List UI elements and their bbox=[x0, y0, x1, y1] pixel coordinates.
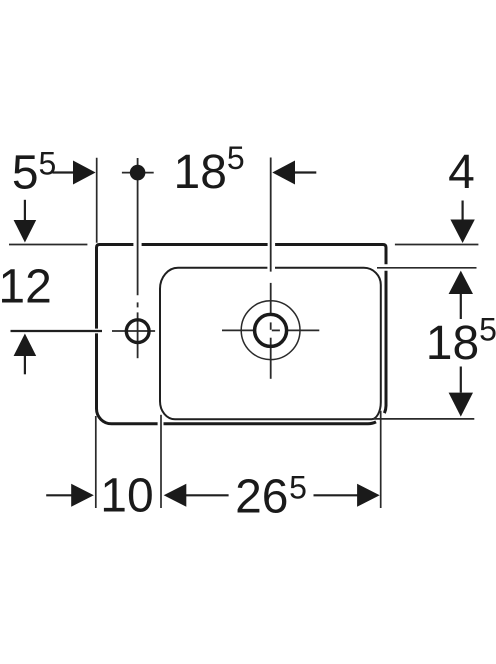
drain horizontal centerline bbox=[222, 329, 319, 331]
drain vertical centerline bbox=[270, 158, 272, 379]
arrow up 12 bbox=[14, 334, 37, 357]
arrow up 18.5 right bbox=[449, 271, 473, 294]
label 18.5 right bbox=[426, 312, 496, 371]
dimension line 26.5 tail right bbox=[314, 494, 359, 496]
extension line basin left bottom bbox=[95, 416, 97, 508]
dimension stem 12 lower bbox=[24, 355, 26, 374]
arrow left 26.5 bbox=[164, 484, 187, 507]
tap hole vertical centerline bbox=[137, 158, 139, 358]
dimension stem 18.5 right upper bbox=[460, 293, 462, 319]
arrow right 10 bbox=[71, 484, 94, 507]
svg-text:12: 12 bbox=[0, 260, 52, 313]
dimension line 18.5 top tail bbox=[294, 171, 316, 173]
svg-text:10: 10 bbox=[100, 470, 153, 523]
label 26.5 bbox=[235, 470, 307, 524]
reference dot crosshair bbox=[122, 172, 154, 174]
svg-text:18: 18 bbox=[426, 317, 479, 370]
dimension stem 12 upper bbox=[24, 200, 26, 221]
svg-text:18: 18 bbox=[174, 146, 227, 199]
dimension line 5.5 top bbox=[52, 171, 73, 173]
arrow down 18.5 right bbox=[449, 393, 473, 417]
extension line left edge vertical top bbox=[96, 158, 98, 243]
label 18.5 top bbox=[174, 140, 245, 199]
dimension line 26.5 tail left bbox=[186, 494, 229, 496]
extension line bowl bottom right bbox=[372, 418, 474, 420]
extension line basin top right bbox=[395, 244, 479, 246]
dimension stem 18.5 right lower bbox=[460, 367, 462, 393]
tap hole horizontal centerline bbox=[112, 330, 155, 332]
extension line bowl right bottom bbox=[380, 411, 382, 508]
dimension line tap center left bbox=[11, 330, 103, 332]
extension line bowl top right bbox=[377, 267, 477, 269]
basin outer outline bbox=[97, 245, 387, 424]
dimension stem 4 bbox=[462, 201, 464, 221]
drain inner circle bbox=[255, 314, 287, 346]
label 5.5 bbox=[12, 145, 56, 199]
arrow down 12 bbox=[14, 220, 37, 243]
arrow left 18.5 top bbox=[272, 161, 295, 185]
svg-text:4: 4 bbox=[448, 146, 475, 199]
extension line bowl left bottom bbox=[160, 415, 162, 508]
extension line basin top left bbox=[9, 244, 87, 246]
arrow right 5.5 bbox=[73, 161, 96, 185]
tap reference dot bbox=[130, 165, 146, 181]
arrow right 26.5 bbox=[357, 484, 380, 507]
svg-text:5: 5 bbox=[39, 145, 57, 181]
svg-text:26: 26 bbox=[235, 471, 288, 524]
svg-text:5: 5 bbox=[227, 140, 245, 176]
arrow down 4 bbox=[450, 220, 474, 244]
svg-text:5: 5 bbox=[289, 470, 307, 506]
tap hole circle bbox=[126, 320, 149, 343]
svg-text:5: 5 bbox=[12, 147, 39, 200]
svg-text:5: 5 bbox=[479, 312, 496, 348]
bowl inner outline bbox=[160, 268, 381, 420]
dimension line 10 tail left bbox=[46, 494, 72, 496]
drain outer circle bbox=[241, 301, 300, 360]
